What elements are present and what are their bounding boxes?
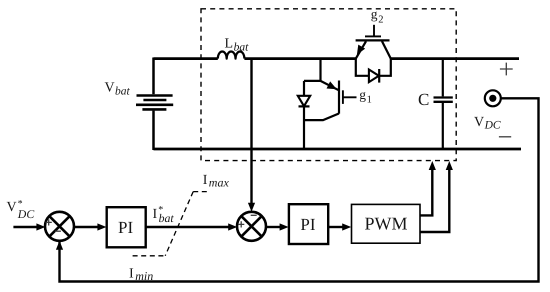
svg-text:min: min bbox=[135, 269, 153, 283]
svg-text:bat: bat bbox=[115, 85, 131, 97]
svg-text:bat: bat bbox=[159, 211, 175, 225]
svg-text:max: max bbox=[209, 176, 230, 190]
svg-text:g: g bbox=[359, 87, 366, 102]
svg-text:bat: bat bbox=[234, 41, 250, 53]
svg-text:1: 1 bbox=[367, 95, 372, 106]
svg-text:C: C bbox=[418, 90, 429, 109]
svg-text:V: V bbox=[105, 80, 115, 95]
svg-text:DC: DC bbox=[17, 207, 35, 221]
svg-text:I: I bbox=[153, 207, 158, 222]
svg-text:PWM: PWM bbox=[365, 214, 408, 234]
svg-text:L: L bbox=[225, 36, 234, 51]
svg-text:I: I bbox=[129, 266, 134, 281]
svg-text:V: V bbox=[474, 115, 484, 130]
svg-text:V: V bbox=[7, 200, 17, 215]
svg-text:g: g bbox=[371, 7, 378, 22]
svg-text:I: I bbox=[203, 173, 208, 188]
svg-text:PI: PI bbox=[300, 215, 315, 234]
svg-text:2: 2 bbox=[378, 14, 383, 25]
svg-text:DC: DC bbox=[484, 120, 501, 132]
svg-text:PI: PI bbox=[118, 218, 133, 237]
